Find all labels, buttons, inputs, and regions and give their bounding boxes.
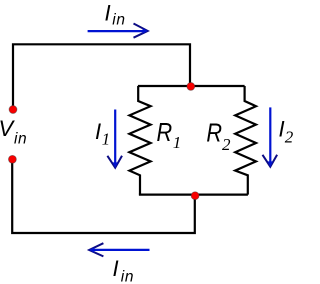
svg-text:I: I bbox=[95, 119, 101, 144]
resistor R1 bbox=[129, 86, 150, 195]
node Vin+ terminal (red dot) bbox=[9, 106, 17, 114]
label Vin bbox=[0, 116, 27, 147]
svg-text:R: R bbox=[206, 120, 222, 148]
node bottom junction B (red dot) bbox=[191, 192, 199, 200]
label I2 bbox=[279, 117, 294, 147]
svg-text:1: 1 bbox=[173, 133, 182, 152]
svg-text:2: 2 bbox=[222, 135, 231, 154]
current arrow Iin top (blue, right) bbox=[88, 24, 148, 38]
node top junction A (red dot) bbox=[187, 82, 195, 90]
wire bottom bus of parallel branch bbox=[139, 194, 248, 196]
current arrow Iin bottom (blue, left) bbox=[89, 243, 150, 256]
label Iin top bbox=[105, 0, 126, 28]
resistor R2 bbox=[235, 86, 256, 195]
label R1 bbox=[156, 119, 181, 152]
svg-text:2: 2 bbox=[285, 127, 294, 146]
wire left lower segment from Vin- to bottom bbox=[12, 163, 195, 233]
svg-text:in: in bbox=[112, 11, 125, 28]
svg-text:1: 1 bbox=[102, 130, 111, 149]
node Vin- terminal (red dot) bbox=[8, 155, 16, 163]
wire top horizontal from Vin+ to node A drop bbox=[13, 44, 190, 106]
svg-text:I: I bbox=[113, 256, 119, 281]
label R2 bbox=[206, 120, 231, 154]
svg-text:in: in bbox=[121, 268, 134, 284]
label I1 bbox=[95, 119, 110, 149]
label Iin bottom bbox=[113, 256, 135, 284]
svg-text:R: R bbox=[156, 119, 172, 147]
wire top bus of parallel branch bbox=[138, 85, 245, 87]
svg-text:in: in bbox=[14, 130, 27, 147]
svg-text:I: I bbox=[105, 0, 111, 25]
current arrow I1 (blue, down) bbox=[107, 110, 122, 169]
current arrow I2 (blue, down) bbox=[263, 107, 278, 167]
